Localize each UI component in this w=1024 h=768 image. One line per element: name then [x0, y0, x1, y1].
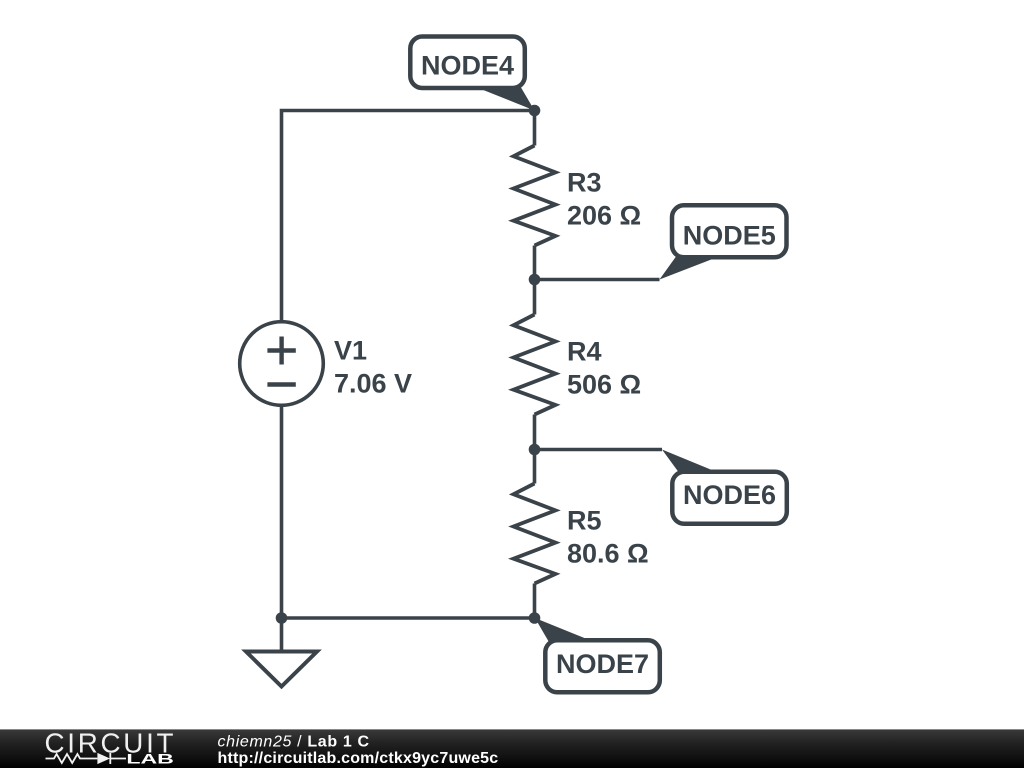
node flag NODE4: [410, 37, 534, 111]
svg-text:NODE7: NODE7: [556, 649, 649, 679]
junction dot node6: [529, 444, 541, 456]
svg-text:NODE6: NODE6: [683, 480, 776, 510]
resistor R3: [514, 146, 556, 246]
wire stub to NODE5 flag: [535, 278, 660, 282]
junction dot bottom left: [276, 612, 288, 624]
wire below R5 to bottom node: [533, 584, 537, 619]
svg-text:R3: R3: [567, 168, 602, 198]
logo resistor-diode symbol: [46, 753, 127, 764]
junction dot node5: [529, 274, 541, 286]
svg-text:506 Ω: 506 Ω: [567, 370, 641, 400]
junction dot bottom right: [529, 612, 541, 624]
node flag NODE7: [535, 618, 660, 692]
wire bottom horizontal: [282, 616, 535, 620]
resistor R4: [514, 315, 556, 415]
node flag NODE5: [660, 205, 787, 279]
wire ground stub: [280, 618, 284, 652]
junction dot top node: [529, 105, 541, 117]
svg-text:7.06 V: 7.06 V: [334, 369, 412, 399]
svg-text:V1: V1: [334, 336, 367, 366]
svg-text:206 Ω: 206 Ω: [567, 201, 641, 231]
svg-text:NODE5: NODE5: [683, 221, 776, 251]
wire from V1 top up and across to NODE4 corner: [282, 111, 535, 322]
svg-text:R4: R4: [567, 337, 602, 367]
svg-text:LAB: LAB: [126, 751, 173, 767]
svg-text:80.6 Ω: 80.6 Ω: [567, 539, 649, 569]
wire right vertical above R3: [533, 111, 537, 146]
svg-text:NODE4: NODE4: [421, 51, 514, 81]
wire stub to NODE6 flag: [535, 448, 663, 452]
svg-text:chiemn25 / Lab 1 C: chiemn25 / Lab 1 C: [218, 734, 370, 751]
wire between R4 and R5: [533, 415, 537, 484]
wire between R3 and R4: [533, 246, 537, 315]
voltage source V1: [240, 322, 324, 406]
ground: [246, 652, 317, 687]
wire from V1 bottom to bottom node: [280, 405, 284, 618]
resistor R5: [514, 484, 556, 584]
footer bar: [0, 729, 1024, 768]
svg-text:R5: R5: [567, 506, 602, 536]
svg-text:http://circuitlab.com/ctkx9yc7: http://circuitlab.com/ctkx9yc7uwe5c: [218, 750, 499, 767]
node flag NODE6: [662, 450, 787, 524]
